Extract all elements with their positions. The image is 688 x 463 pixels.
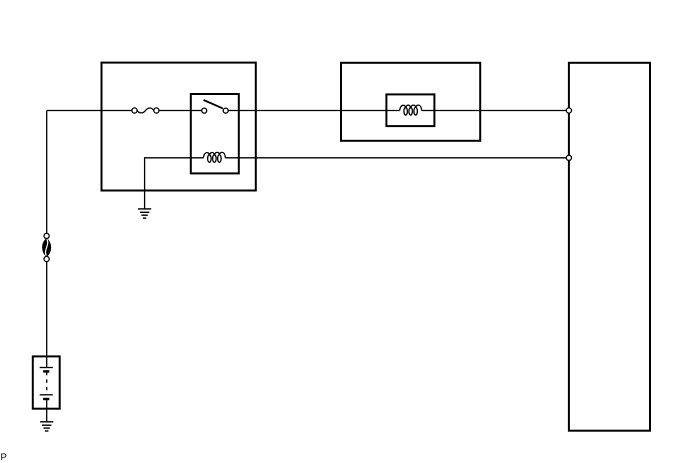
svg-text:P: P [1,452,7,463]
